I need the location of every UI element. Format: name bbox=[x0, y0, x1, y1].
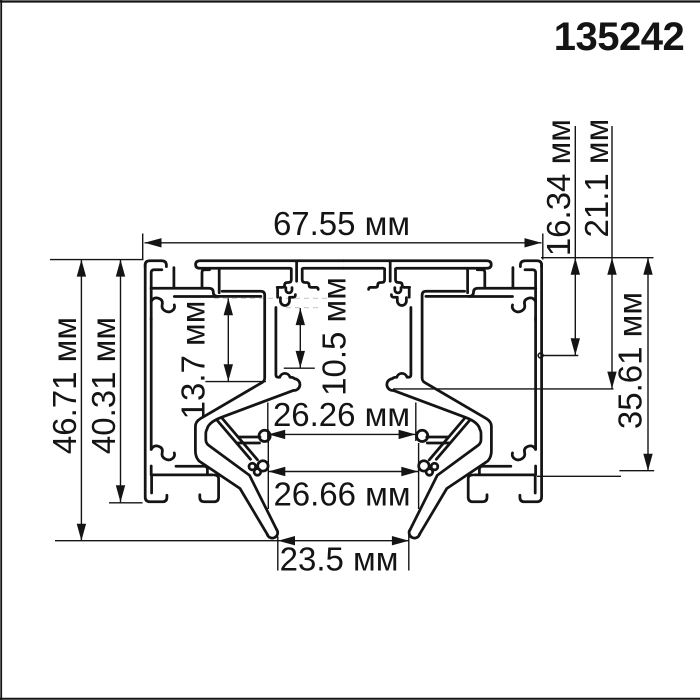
wire inner surface stub bbox=[151, 270, 162, 298]
svg-text:10.5 мм: 10.5 мм bbox=[316, 277, 353, 396]
wire left outer wall and bottom lip bbox=[145, 264, 167, 502]
wire bbox=[0, 0, 2, 700]
node terminator dot bbox=[538, 353, 543, 358]
wire claw arm upper bbox=[238, 437, 261, 443]
wire inner left wall bbox=[150, 318, 153, 449]
node dim 13.7 mm bbox=[227, 298, 229, 381]
svg-text:135242: 135242 bbox=[554, 15, 684, 59]
wire flange inner lip bbox=[200, 475, 219, 502]
wire claw bumps bbox=[249, 463, 256, 470]
svg-text:16.34 мм: 16.34 мм bbox=[540, 119, 577, 256]
wire S-hook lower bbox=[151, 446, 174, 460]
wire top edge left piece with lip bbox=[145, 261, 166, 267]
svg-text:35.61 мм: 35.61 мм bbox=[612, 292, 649, 429]
wire funnel tip bbox=[267, 530, 277, 539]
node dim 26.26 mm bbox=[268, 433, 415, 435]
wire slot flare left staircase bbox=[277, 269, 291, 288]
svg-text:46.71 мм: 46.71 мм bbox=[46, 317, 83, 454]
svg-text:23.5 мм: 23.5 мм bbox=[280, 541, 399, 578]
node dim 35.61 mm bbox=[647, 258, 649, 471]
wire channel wall notch bbox=[278, 289, 296, 306]
node claw blob upper bbox=[259, 430, 270, 441]
wire baseline bottom bbox=[55, 540, 278, 542]
node claw blob lower bbox=[258, 461, 268, 471]
wire extension top-right bbox=[541, 257, 654, 259]
wire pocket bottom shelf bbox=[151, 288, 261, 296]
svg-text:21.1 мм: 21.1 мм bbox=[578, 119, 615, 238]
wire top plate middle bbox=[196, 261, 344, 269]
wire extension top-left bbox=[50, 259, 144, 261]
svg-text:67.55 мм: 67.55 мм bbox=[273, 205, 410, 242]
wire S-hook upper bbox=[151, 298, 174, 312]
node dim 10.5 mm bbox=[299, 308, 301, 368]
wire inner bottom surface bbox=[176, 466, 207, 474]
wire busbar slot stem bbox=[295, 262, 298, 282]
wire shelf under pocket bbox=[174, 295, 218, 298]
node dim 46.71 mm bbox=[80, 260, 82, 541]
node dim 16.34 mm bbox=[574, 126, 576, 355]
node dashed reference line B bbox=[286, 307, 318, 309]
wire pocket right wall bbox=[202, 270, 210, 288]
node dim 23.5 mm bbox=[278, 540, 409, 542]
wire channel outer wall and funnel outer bbox=[195, 291, 267, 534]
wire inner surface centre bbox=[303, 267, 343, 270]
svg-text:13.7 мм: 13.7 мм bbox=[175, 301, 212, 420]
wire bbox=[0, 698, 700, 700]
wire pocket slot wall bbox=[173, 268, 176, 287]
svg-text:26.26 мм: 26.26 мм bbox=[273, 396, 410, 433]
wire web wall under plate bbox=[218, 270, 221, 293]
wire claw strut bbox=[217, 418, 257, 460]
wire flange top bbox=[151, 474, 212, 477]
node dim 40.31 mm bbox=[120, 260, 122, 503]
wire slot hook left bbox=[286, 288, 292, 293]
wire S-hook upper tail bbox=[150, 299, 153, 320]
wire inner wall to flange bbox=[150, 466, 153, 474]
node dim 26.66 mm bbox=[268, 471, 418, 473]
wire channel inner wall and foot bbox=[206, 308, 300, 530]
svg-text:26.66 мм: 26.66 мм bbox=[273, 476, 410, 513]
node dim 21.1 mm bbox=[611, 126, 613, 389]
wire flange left wall bbox=[150, 475, 153, 493]
svg-text:40.31 мм: 40.31 мм bbox=[85, 317, 122, 454]
wire bbox=[0, 0, 700, 2]
wire slot flare right staircase bbox=[302, 269, 318, 290]
node dashed reference line A bbox=[214, 297, 330, 299]
node dim 67.55 mm bbox=[145, 242, 542, 244]
